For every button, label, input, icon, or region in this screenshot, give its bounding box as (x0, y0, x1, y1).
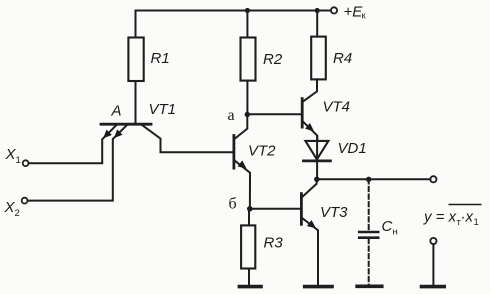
ground under Cn (357, 284, 382, 288)
svg-text:н: н (393, 227, 398, 238)
output node junction (314, 177, 319, 182)
transistor VT1 emitter 1 with wire to X1 (29, 126, 116, 164)
svg-text:2: 2 (15, 208, 20, 219)
svg-text:A: A (111, 103, 122, 120)
svg-text:C: C (382, 218, 393, 235)
label output formula y (423, 205, 482, 229)
wire node b to VT3 base (250, 208, 300, 210)
power terminal +Ek (331, 7, 337, 13)
svg-text:R4: R4 (333, 50, 352, 67)
transistor VT1 (multi-emitter) base bar (101, 123, 151, 126)
wire R3 to ground (248, 269, 250, 286)
label +Ek (344, 4, 367, 22)
transistor VT3 base bar (300, 194, 303, 225)
wire node b to R3 (248, 209, 250, 226)
node junction on rail at R2 (245, 8, 250, 13)
capacitor Cn dashed wire top (368, 179, 370, 231)
svg-text:·x: ·x (461, 209, 474, 226)
capacitor Cn plates (359, 231, 378, 234)
label X1 (5, 146, 21, 166)
wire top power rail (136, 11, 331, 38)
transistor VT2 base bar (232, 136, 235, 169)
transistor VT4 collector wire to R4 (303, 79, 317, 101)
svg-text:б: б (229, 196, 237, 213)
ground under VT3 (305, 285, 332, 289)
capacitor Cn dashed wire bottom (368, 239, 370, 285)
ground under R3 (239, 285, 261, 289)
svg-text:VT4: VT4 (323, 99, 351, 116)
svg-text:1: 1 (474, 217, 479, 228)
svg-text:R2: R2 (263, 51, 283, 68)
wire lower terminal to ground (432, 244, 434, 285)
node junction at Cn branch (366, 177, 371, 182)
diode VD1 (305, 141, 328, 160)
node b junction (247, 206, 253, 212)
transistor VT4 emitter wire to VD1 (303, 122, 317, 141)
transistor VT3 emitter wire to ground (303, 218, 318, 285)
svg-text:VT1: VT1 (149, 101, 177, 118)
output lower terminal (430, 238, 436, 244)
svg-text:1: 1 (16, 155, 21, 166)
resistor R1 (128, 38, 143, 82)
wire output line (317, 178, 430, 180)
svg-text:+E: +E (344, 4, 364, 21)
svg-text:VD1: VD1 (338, 140, 367, 157)
transistor VT3 collector wire to output node (303, 180, 317, 197)
transistor VT2 collector wire to node a (235, 115, 247, 139)
wire R1 to VT1 base (135, 81, 137, 123)
transistor VT4 base bar (301, 99, 304, 128)
ground under lower terminal (422, 285, 445, 289)
wire R2 to node a (246, 81, 248, 115)
label X2 (4, 199, 20, 219)
input terminal X2 (22, 198, 28, 204)
wire node a to VT4 base (247, 113, 301, 115)
output terminal (430, 176, 436, 182)
transistor VT1 emitter 2 with wire to X2 (28, 126, 127, 201)
resistor R3 (241, 225, 255, 268)
wire VD1 to output node (316, 137, 318, 180)
resistor R4 (311, 37, 326, 80)
label Cn (382, 218, 398, 238)
svg-text:VT2: VT2 (248, 143, 276, 160)
svg-text:R1: R1 (151, 50, 170, 67)
node a junction (245, 112, 250, 117)
transistor VT2 emitter wire to node b (235, 161, 250, 209)
input terminal X1 (23, 160, 29, 166)
svg-text:VT3: VT3 (320, 204, 348, 221)
svg-text:а: а (228, 107, 235, 124)
svg-text:R3: R3 (264, 235, 284, 252)
svg-text:y = x: y = x (423, 209, 457, 226)
transistor VT1 collector wire to VT2 base (142, 125, 233, 152)
wire rail to R4 (316, 11, 318, 37)
node junction on rail at R4 (315, 8, 320, 13)
wire rail to R2 (246, 11, 248, 38)
resistor R2 (241, 38, 256, 81)
